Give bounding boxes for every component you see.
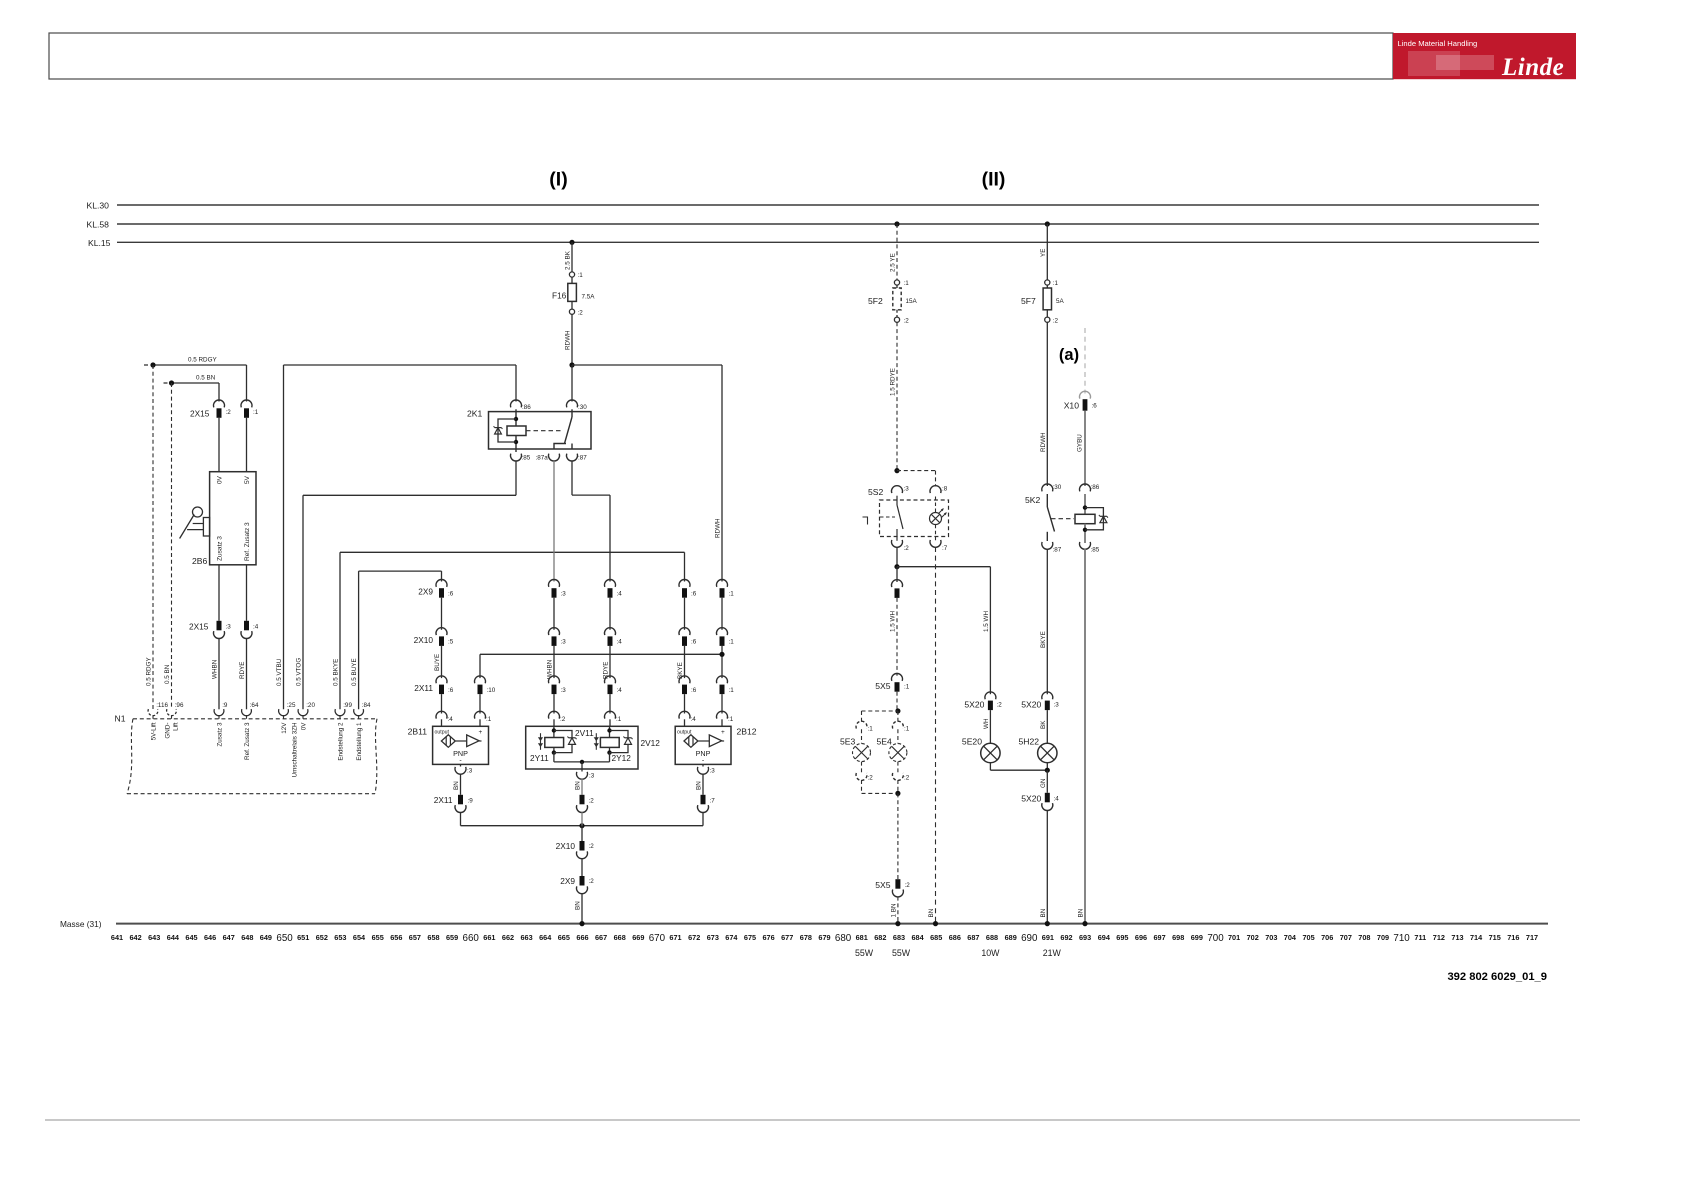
connector 2X10 pin :5 [436, 628, 447, 635]
svg-text:698: 698 [1172, 933, 1184, 942]
svg-text:2V12: 2V12 [641, 738, 661, 748]
wire 2B6 0V down [218, 565, 220, 621]
2Y11 adjust arrows [540, 733, 542, 750]
2K1 pin :85 [511, 454, 522, 461]
svg-text::84: :84 [362, 702, 371, 709]
svg-text::3: :3 [904, 486, 910, 493]
connector 5X20 pin :2 [985, 692, 996, 699]
svg-text::1: :1 [616, 716, 622, 723]
wire 0.5 BKYE from N1:99 [339, 552, 341, 709]
connector 2X9 pin :4 [605, 579, 616, 586]
svg-text:KL.30: KL.30 [87, 200, 110, 210]
wire BN to ground [581, 893, 583, 923]
device top pin :2 at x554 [549, 711, 560, 718]
connector 2X11 pin :2 [580, 795, 585, 805]
node RDWH junction [569, 362, 574, 367]
svg-text::8: :8 [942, 486, 948, 493]
svg-text::1: :1 [486, 716, 492, 723]
wire 0.5 VTOG from relay :85 to N1:20 [515, 461, 517, 496]
svg-text::2: :2 [997, 702, 1003, 709]
svg-text::3: :3 [561, 687, 567, 694]
svg-text::1: :1 [868, 726, 874, 733]
svg-text:BN: BN [575, 901, 582, 910]
connector 2X9 pin :6 [436, 579, 447, 586]
svg-text::85: :85 [1091, 547, 1100, 554]
valve group 2V11/2V12 box [526, 726, 638, 769]
wire 2X9 to 2X10 at x441.5 [441, 598, 443, 630]
svg-text::3: :3 [710, 768, 716, 775]
node 5E bottom junction [895, 791, 900, 796]
svg-text:675: 675 [744, 933, 756, 942]
wire 2X15:2 to 2B6 0V [218, 418, 220, 472]
svg-text::2: :2 [560, 716, 566, 723]
svg-text:RDWH: RDWH [1040, 432, 1047, 452]
svg-text::3: :3 [589, 773, 595, 780]
connector 5X5 pin :2 [895, 879, 900, 889]
wire (a) dashed to X10 [1084, 328, 1086, 394]
2K1 coil [515, 409, 517, 426]
connector 2X15 pin :3 [217, 621, 222, 631]
svg-text:673: 673 [707, 933, 719, 942]
node WH junction [894, 564, 899, 569]
wire 1.5 RDYE [896, 322, 898, 470]
wire 2X11 to device at x684.5 [684, 694, 686, 713]
svg-text:657: 657 [409, 933, 421, 942]
svg-text:695: 695 [1116, 933, 1128, 942]
svg-text:685: 685 [930, 933, 942, 942]
connector 2X11 pin :6 [679, 676, 690, 683]
svg-text::2: :2 [589, 843, 595, 850]
node 5S2 feed junction [894, 468, 899, 473]
svg-text:2X10: 2X10 [556, 841, 576, 851]
svg-text:RDWH: RDWH [715, 518, 722, 538]
connector X10 pin :6 [1080, 391, 1091, 398]
svg-text:681: 681 [856, 933, 868, 942]
svg-text:1 BN: 1 BN [890, 903, 897, 917]
svg-text:KL.58: KL.58 [87, 219, 110, 229]
connector 2X10 pin :1 [717, 628, 728, 635]
svg-text:666: 666 [576, 933, 588, 942]
2B12 sensor symbol [684, 735, 698, 748]
device top pin :4 at x684.5 [679, 711, 690, 718]
svg-text:7.5A: 7.5A [582, 294, 596, 301]
svg-text:714: 714 [1470, 933, 1483, 942]
svg-text::25: :25 [287, 702, 296, 709]
svg-text:708: 708 [1358, 933, 1370, 942]
wire 2X11 to device at x610 [609, 694, 611, 713]
svg-text:676: 676 [763, 933, 775, 942]
svg-text:703: 703 [1265, 933, 1277, 942]
sensor 2B12 box [675, 726, 731, 764]
svg-text:5X20: 5X20 [1021, 793, 1041, 803]
svg-text:5X20: 5X20 [964, 699, 984, 709]
svg-text::6: :6 [1092, 403, 1098, 410]
svg-text:1.5 WH: 1.5 WH [890, 611, 897, 632]
svg-text:717: 717 [1526, 933, 1538, 942]
svg-text:5X5: 5X5 [875, 681, 891, 691]
wire RDWH to 5K2:30 [1046, 322, 1048, 486]
svg-text:5K2: 5K2 [1025, 495, 1041, 505]
connector 2X11 pin :10 [475, 676, 486, 683]
svg-text::1: :1 [1053, 280, 1059, 287]
connector 2X10 pin :2 [580, 841, 585, 851]
svg-text:670: 670 [649, 933, 666, 944]
wire WHBN to N1:9 [218, 638, 220, 709]
svg-text::30: :30 [578, 404, 587, 411]
svg-text:5F7: 5F7 [1021, 296, 1036, 306]
svg-text::1: :1 [253, 409, 259, 416]
svg-text:0.5 BUYE: 0.5 BUYE [351, 658, 358, 686]
connector 2X10 pin :3 [549, 628, 560, 635]
connector 2X9 pin :6 [679, 579, 690, 586]
svg-text:651: 651 [297, 933, 309, 942]
svg-text::1: :1 [904, 726, 910, 733]
svg-text::87: :87 [578, 455, 587, 462]
wire BK to 5H22 [1046, 710, 1048, 743]
wire 2X9 to 2X10 at x684.5 [684, 598, 686, 630]
connector 5X20 pin :4 [1045, 793, 1050, 803]
svg-text:BN: BN [1077, 908, 1084, 917]
svg-text::87a: :87a [536, 455, 549, 462]
svg-text:667: 667 [595, 933, 607, 942]
fuse F16 7.5A [569, 272, 574, 277]
connector 2X15 pin :1 [241, 400, 252, 407]
svg-text:5V-Lift: 5V-Lift [150, 722, 157, 740]
coordinate scale numbers 641-717 [111, 933, 1538, 944]
svg-text:5X5: 5X5 [875, 880, 891, 890]
lamp branch 5E3 [862, 710, 898, 712]
wire BKYE from 5K2:87 [1046, 549, 1048, 694]
svg-text:690: 690 [1021, 933, 1038, 944]
N1 pin :84 Endstellung 1 [354, 709, 364, 716]
N1 pin :96 GND-Lift [167, 709, 177, 716]
svg-text:Lift: Lift [173, 722, 180, 731]
svg-text:2B11: 2B11 [408, 727, 428, 737]
bus KL.30 [117, 204, 1539, 206]
svg-text:2X15: 2X15 [190, 409, 210, 419]
svg-text::85: :85 [522, 455, 531, 462]
wire 2X15:1 to 2B6 5V [246, 418, 248, 472]
wire 2.5 BK from KL.15 [569, 240, 574, 245]
svg-text:650: 650 [276, 933, 293, 944]
2K1 switch contact [571, 409, 573, 417]
wire 2X10 to 2X11 at x722 [721, 646, 723, 678]
svg-text::4: :4 [691, 716, 697, 723]
svg-text:686: 686 [949, 933, 961, 942]
connector 5X5 pin :1 [892, 673, 903, 680]
node RDGY junction [150, 362, 155, 367]
svg-text:668: 668 [614, 933, 626, 942]
fuse 5F2 15A [894, 280, 899, 285]
svg-text::6: :6 [448, 591, 454, 598]
svg-text::64: :64 [250, 702, 259, 709]
diode of 2Y11 [569, 737, 576, 739]
svg-text:2X9: 2X9 [418, 587, 433, 597]
svg-text:10W: 10W [981, 948, 1000, 958]
svg-text:5E20: 5E20 [962, 737, 982, 747]
bus KL.15 [117, 241, 1539, 243]
svg-text:648: 648 [241, 933, 253, 942]
svg-text:691: 691 [1042, 933, 1054, 942]
svg-text:GYBU: GYBU [1077, 434, 1084, 452]
svg-text::3: :3 [226, 624, 232, 631]
wire RDYE to N1:64 [246, 638, 248, 709]
svg-text:5E4: 5E4 [877, 737, 893, 747]
2B6 potentiometer symbol [193, 507, 203, 517]
svg-text:707: 707 [1340, 933, 1352, 942]
svg-text::3: :3 [561, 591, 567, 598]
svg-text::9: :9 [222, 702, 228, 709]
2V group bottom rail [553, 753, 555, 762]
svg-text::2: :2 [904, 545, 910, 552]
5K2 pin :85 [1080, 542, 1091, 549]
svg-text:YE: YE [1040, 249, 1047, 257]
BN collector rail [460, 812, 462, 826]
wire BN from 2B12:3 [702, 774, 704, 795]
svg-text:669: 669 [632, 933, 644, 942]
connector pin below junction [896, 567, 898, 582]
node ground 691 [1045, 921, 1050, 926]
svg-text:5F2: 5F2 [868, 296, 883, 306]
wire 2K1:87a down [553, 461, 555, 582]
svg-text:712: 712 [1433, 933, 1445, 942]
svg-text::1: :1 [904, 683, 910, 690]
N1 pin :25 12V [279, 709, 289, 716]
2V group pin :3 [577, 772, 588, 779]
svg-text::1: :1 [729, 687, 735, 694]
svg-text:680: 680 [835, 933, 852, 944]
svg-text::1: :1 [728, 716, 734, 723]
wire from 5S2:2 [896, 547, 898, 567]
2K1 flyback diode [498, 419, 516, 442]
2Y12 adjust arrows [595, 733, 597, 750]
connector 2X15 pin :4 [244, 621, 249, 631]
svg-text::4: :4 [1054, 796, 1060, 803]
svg-text::4: :4 [617, 639, 623, 646]
svg-text:660: 660 [463, 933, 480, 944]
wire 2X10 to 2X11 at x554 [553, 646, 555, 678]
svg-text:+: + [479, 729, 483, 736]
svg-text::6: :6 [691, 591, 697, 598]
svg-text:2X11: 2X11 [414, 683, 433, 693]
svg-text:704: 704 [1284, 933, 1297, 942]
svg-text:BN: BN [696, 781, 703, 790]
svg-text:2X11: 2X11 [434, 795, 453, 805]
svg-text:2X10: 2X10 [414, 635, 434, 645]
svg-text:0.5 BN: 0.5 BN [164, 664, 171, 684]
svg-text:2B12: 2B12 [737, 727, 757, 737]
svg-text:2Y11: 2Y11 [530, 753, 549, 763]
svg-text::9: :9 [468, 798, 474, 805]
node ground 685 [933, 921, 938, 926]
wire 5E20 to 5H22 bottom [989, 763, 991, 771]
N1 pin :116 5V-Lift [148, 709, 158, 716]
svg-text:Ref. Zusatz 3: Ref. Zusatz 3 [244, 722, 251, 760]
svg-text:684: 684 [912, 933, 925, 942]
svg-text:711: 711 [1414, 933, 1426, 942]
svg-text:710: 710 [1393, 933, 1410, 944]
svg-text::2: :2 [589, 798, 595, 805]
svg-text:647: 647 [223, 933, 235, 942]
svg-text::7: :7 [710, 798, 716, 805]
svg-text:2Y12: 2Y12 [612, 753, 632, 763]
svg-text:644: 644 [167, 933, 180, 942]
svg-text:output: output [435, 729, 450, 735]
svg-text::1: :1 [729, 639, 735, 646]
svg-text:15A: 15A [906, 298, 918, 305]
5S2 illumination lamp [930, 513, 942, 525]
wire 2X9 to 2X10 at x722 [721, 598, 723, 630]
svg-text:656: 656 [390, 933, 402, 942]
header title box [49, 33, 1393, 79]
svg-text:658: 658 [427, 933, 439, 942]
svg-text:652: 652 [316, 933, 328, 942]
svg-text::5: :5 [448, 639, 454, 646]
wire RDWH from F16 [571, 314, 573, 365]
svg-text:GN: GN [1040, 778, 1047, 788]
svg-text:Endstellung 2: Endstellung 2 [337, 722, 344, 761]
svg-text:5V: 5V [244, 475, 251, 484]
svg-text:BN: BN [453, 781, 460, 790]
svg-text:0.5 VTOG: 0.5 VTOG [296, 658, 303, 686]
5K2 flyback diode [1085, 508, 1103, 530]
wire 2X11 to device at x722 [721, 694, 723, 713]
svg-text:693: 693 [1079, 933, 1091, 942]
wire 2X11 to device at x480 [479, 694, 481, 713]
wire BN from 5S2:7 to ground [935, 547, 937, 924]
device top pin :1 at x722 [717, 711, 728, 718]
wire 2X9 to 2X10 at x610 [609, 598, 611, 630]
svg-text::7: :7 [942, 545, 948, 552]
lamp branch 5E4 [897, 711, 899, 724]
svg-text::10: :10 [487, 687, 496, 694]
svg-text:BK: BK [1040, 720, 1047, 729]
svg-text::1: :1 [904, 280, 910, 287]
svg-text:Masse (31): Masse (31) [60, 919, 102, 929]
connector 2X11 pin :3 [549, 676, 560, 683]
svg-text:5H22: 5H22 [1018, 737, 1039, 747]
svg-text:641: 641 [111, 933, 123, 942]
svg-text:709: 709 [1377, 933, 1389, 942]
svg-text::3: :3 [561, 639, 567, 646]
svg-text:1.5 RDYE: 1.5 RDYE [890, 368, 897, 396]
node ground 693 [1082, 921, 1087, 926]
svg-text::3: :3 [467, 768, 473, 775]
svg-text::2: :2 [868, 775, 874, 782]
svg-text:643: 643 [148, 933, 160, 942]
connector 2X11 pin :1 [717, 676, 728, 683]
wire 2X9 to 2X10 at x554 [553, 598, 555, 630]
bus KL.58 [117, 223, 1539, 225]
svg-text:BUYE: BUYE [434, 654, 441, 671]
node BN junction [169, 380, 174, 385]
device top pin :4 at x441.5 [436, 711, 447, 718]
svg-text:N1: N1 [115, 714, 126, 724]
wire 2X11 to device at x441.5 [441, 694, 443, 713]
svg-text::4: :4 [617, 591, 623, 598]
N1 pin :64 Ref. Zusatz 3 [242, 709, 252, 716]
svg-text:Ref. Zusatz 3: Ref. Zusatz 3 [244, 522, 251, 561]
solenoid 2Y12 [609, 726, 611, 737]
wire 2X10 to 2X11 at x610 [609, 646, 611, 678]
connector 2X10 pin :4 [605, 628, 616, 635]
device top pin :1 at x610 [605, 711, 616, 718]
Linde logo box [1393, 33, 1576, 79]
5K2 switch contact [1046, 494, 1048, 507]
svg-text:Zusatz 3: Zusatz 3 [216, 536, 223, 561]
svg-text:655: 655 [372, 933, 384, 942]
svg-text:5X20: 5X20 [1021, 699, 1041, 709]
svg-text:BKYE: BKYE [1040, 631, 1047, 648]
svg-text::86: :86 [1091, 484, 1100, 491]
device top pin :1 at x480 [475, 711, 486, 718]
svg-text::4: :4 [617, 687, 623, 694]
wire to 5X5:2 [897, 793, 899, 879]
5S2 pin :7 [930, 540, 941, 547]
wire 2X10 to 2X11 at x441.5 [441, 646, 443, 678]
svg-text::2: :2 [904, 317, 910, 324]
wire 2B6 5V down [246, 565, 248, 621]
wire BN from 2V:3 [581, 779, 583, 795]
svg-text::2: :2 [905, 882, 911, 889]
svg-text:697: 697 [1154, 933, 1166, 942]
2K1 pin :87a [549, 454, 560, 461]
ground bus Masse (31) [116, 923, 1548, 925]
svg-text::2: :2 [589, 878, 595, 885]
2B12 pin :3 [702, 764, 704, 766]
svg-text:683: 683 [893, 933, 905, 942]
svg-text:5E3: 5E3 [840, 737, 856, 747]
wire 0.5 BN horizontal [164, 382, 172, 384]
svg-text:BN: BN [575, 781, 582, 790]
svg-text:664: 664 [539, 933, 552, 942]
svg-text:5A: 5A [1056, 298, 1065, 305]
svg-text:Linde Material Handling: Linde Material Handling [1398, 39, 1478, 48]
svg-text:Linde: Linde [1501, 54, 1564, 81]
svg-text:715: 715 [1489, 933, 1501, 942]
svg-text:649: 649 [260, 933, 272, 942]
svg-text:output: output [677, 729, 692, 735]
svg-text:646: 646 [204, 933, 216, 942]
connector 2X9 pin :2 [580, 876, 585, 886]
svg-text:687: 687 [967, 933, 979, 942]
svg-text:BN: BN [1040, 908, 1047, 917]
2B11 pin :3 [460, 764, 462, 766]
svg-text:701: 701 [1228, 933, 1240, 942]
sensor 2B11 box [433, 726, 489, 764]
node ground 666 [579, 921, 584, 926]
svg-text:BN: BN [928, 908, 935, 917]
svg-text::4: :4 [253, 624, 259, 631]
svg-text:677: 677 [781, 933, 793, 942]
svg-text:KL.15: KL.15 [88, 238, 111, 248]
svg-text:653: 653 [334, 933, 346, 942]
svg-text:661: 661 [483, 933, 495, 942]
wire 1.5 WH dashed to 5X5:1 [896, 598, 898, 676]
svg-text:2K1: 2K1 [467, 409, 483, 419]
5K2 actuation dashed link [1051, 518, 1074, 520]
svg-text:654: 654 [353, 933, 366, 942]
wire BN from 2B11:3 [460, 774, 462, 795]
5S2 pin :2 [892, 540, 903, 547]
svg-text:663: 663 [521, 933, 533, 942]
svg-text:5S2: 5S2 [868, 487, 884, 497]
wire 2X10 to 2X11 at x684.5 [684, 646, 686, 678]
wire 2K1:87 jog to x610 [571, 461, 573, 495]
svg-text:2X15: 2X15 [189, 621, 209, 631]
svg-text:12V: 12V [281, 722, 288, 734]
footer separator line [45, 1119, 1580, 1121]
